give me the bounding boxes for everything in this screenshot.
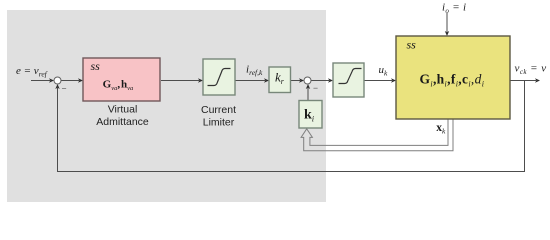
svg-text:−: − [62, 84, 67, 94]
svg-text:Gi,hi,fi,ci,di: Gi,hi,fi,ci,di [420, 72, 485, 89]
svg-text:xk: xk [436, 122, 446, 136]
svg-text:ss: ss [407, 37, 417, 51]
svg-text:Current: Current [201, 104, 236, 116]
svg-text:vck = v: vck = v [515, 63, 547, 77]
svg-text:−: − [313, 83, 318, 93]
svg-text:Virtual: Virtual [108, 104, 138, 116]
svg-text:ss: ss [91, 59, 101, 73]
svg-text:io = i: io = i [442, 1, 466, 15]
svg-text:uk: uk [379, 64, 389, 78]
svg-text:Admittance: Admittance [96, 116, 149, 128]
svg-text:Limiter: Limiter [203, 116, 235, 128]
